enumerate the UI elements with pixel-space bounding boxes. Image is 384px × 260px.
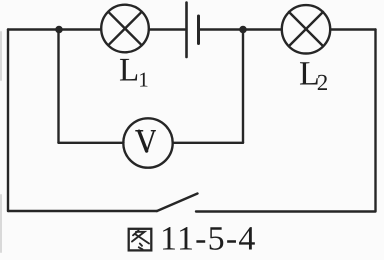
scan smudge left edge top xyxy=(0,32,2,80)
scan smudge left edge bottom xyxy=(0,195,2,252)
svg-text:11-5-4: 11-5-4 xyxy=(160,221,257,258)
wire: lamp L2 to top-right corner xyxy=(331,28,376,30)
node A (junction dot left, top wire) xyxy=(55,26,63,34)
svg-text:1: 1 xyxy=(138,67,149,91)
wire: voltmeter row left segment xyxy=(59,142,124,144)
label L1 xyxy=(119,53,149,92)
wire: top-left segment from corner to lamp L1 xyxy=(8,28,101,30)
wire: bottom-right segment from switch to corner xyxy=(196,210,376,212)
lamp L2 xyxy=(282,5,330,53)
battery cell E1 xyxy=(187,3,199,58)
node B (junction dot right, top wire) xyxy=(239,26,247,34)
svg-text:L: L xyxy=(119,53,139,89)
wire: lamp L1 to battery xyxy=(149,28,185,30)
wire: voltmeter row right segment xyxy=(173,142,243,144)
voltmeter V1 xyxy=(123,118,172,167)
label L2 xyxy=(299,56,328,95)
svg-text:2: 2 xyxy=(317,70,329,95)
wire: left vertical side of outer loop xyxy=(7,30,9,212)
wire: vertical branch from node B down to voltmeter row xyxy=(242,30,244,143)
wire: battery to lamp L2 xyxy=(200,28,281,30)
switch S1 (open blade) xyxy=(157,194,198,212)
wire: bottom-left segment to switch xyxy=(8,210,157,212)
wire: vertical branch from node A down to voltmeter row xyxy=(57,30,59,143)
lamp L1 xyxy=(101,5,149,53)
caption glyph 图 (drawn as strokes) xyxy=(129,229,152,251)
wire: right vertical side of outer loop xyxy=(374,30,376,212)
